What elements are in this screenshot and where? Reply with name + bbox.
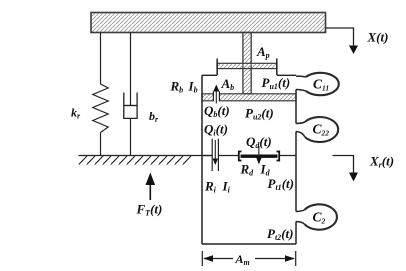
svg-text:X(t): X(t) bbox=[367, 30, 389, 45]
svg-text:Qi(t): Qi(t) bbox=[204, 122, 228, 138]
svg-text:Qd(t): Qd(t) bbox=[246, 134, 272, 150]
svg-text:Pt2(t): Pt2(t) bbox=[267, 226, 293, 242]
svg-text:Pt1(t): Pt1(t) bbox=[268, 176, 294, 192]
svg-text:Xr(t): Xr(t) bbox=[369, 154, 394, 170]
svg-text:Qb(t): Qb(t) bbox=[204, 103, 230, 119]
